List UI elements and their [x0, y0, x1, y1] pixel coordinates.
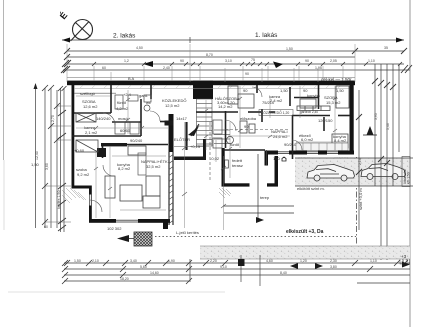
svg-text:1,10: 1,10: [368, 59, 375, 63]
svg-text:ELŐTÉR: ELŐTÉR: [174, 137, 190, 142]
svg-text:14,2 m2: 14,2 m2: [218, 104, 233, 109]
svg-text:6,0 m2: 6,0 m2: [301, 137, 314, 142]
svg-text:12,6 m2: 12,6 m2: [83, 104, 98, 109]
svg-text:1,10: 1,10: [370, 259, 377, 263]
svg-text:18,20: 18,20: [120, 277, 129, 281]
svg-text:140/240: 140/240: [96, 116, 111, 121]
svg-text:1,20: 1,20: [300, 259, 307, 263]
svg-text:35: 35: [384, 46, 388, 50]
svg-text:elkötött szint m.: elkötött szint m.: [297, 186, 325, 191]
svg-text:wc: wc: [146, 100, 151, 105]
svg-text:konyha: konyha: [307, 93, 321, 98]
svg-text:fürdő: fürdő: [230, 142, 240, 147]
svg-text:KÖZLEKEDŐ 1,20: KÖZLEKEDŐ 1,20: [261, 110, 289, 115]
svg-text:15,3 m2: 15,3 m2: [326, 100, 341, 105]
svg-text:B A: B A: [128, 76, 135, 81]
svg-text:L-jelű kerítés: L-jelű kerítés: [176, 230, 199, 235]
svg-text:terep: terep: [260, 195, 270, 200]
svg-text:1,90: 1,90: [168, 259, 175, 263]
svg-text:kerítés 1,50r: kerítés 1,50r: [57, 189, 61, 209]
svg-text:90/210: 90/210: [284, 142, 297, 147]
svg-text:2,1 m2: 2,1 m2: [85, 130, 98, 135]
svg-text:2,70: 2,70: [51, 115, 55, 122]
svg-text:90: 90: [245, 72, 249, 76]
svg-text:2,10: 2,10: [92, 259, 99, 263]
svg-text:gard.: gard.: [139, 93, 148, 98]
svg-text:120/150: 120/150: [318, 118, 333, 123]
svg-text:90: 90: [180, 59, 184, 63]
svg-text:-0,02: -0,02: [210, 156, 220, 161]
svg-text:2,10: 2,10: [358, 158, 362, 165]
svg-text:12,5 m2: 12,5 m2: [165, 103, 180, 108]
svg-text:fürdő: fürdő: [117, 100, 127, 105]
svg-text:2,40: 2,40: [163, 66, 170, 70]
svg-text:1,50: 1,50: [31, 162, 40, 167]
svg-text:1. lakás: 1. lakás: [255, 32, 278, 39]
svg-text:8,2 m2: 8,2 m2: [118, 166, 131, 171]
svg-text:12,40: 12,40: [35, 151, 39, 160]
svg-text:1,50: 1,50: [280, 88, 289, 93]
svg-text:2,05: 2,05: [330, 59, 337, 63]
svg-text:4,50: 4,50: [136, 46, 143, 50]
svg-text:75: 75: [251, 58, 255, 62]
svg-text:előszoba: előszoba: [240, 116, 257, 121]
svg-text:60: 60: [44, 225, 48, 229]
svg-text:+2,4: +2,4: [123, 92, 132, 97]
svg-text:4,2 m2: 4,2 m2: [116, 106, 129, 111]
svg-text:2. lakás: 2. lakás: [113, 33, 136, 40]
svg-text:9,2 m2: 9,2 m2: [77, 172, 90, 177]
svg-text:90: 90: [243, 88, 248, 93]
svg-text:90: 90: [305, 59, 309, 63]
svg-text:1,2: 1,2: [124, 59, 129, 63]
svg-text:1,50: 1,50: [336, 88, 345, 93]
svg-text:5,60: 5,60: [140, 265, 147, 269]
svg-text:+3: +3: [401, 254, 407, 259]
svg-text:2,20: 2,20: [210, 259, 217, 263]
svg-text:8,4 m2: 8,4 m2: [334, 138, 347, 143]
svg-text:1,50: 1,50: [74, 259, 81, 263]
svg-text:elkészült +3, Da: elkészült +3, Da: [286, 229, 324, 235]
svg-text:75/210: 75/210: [262, 100, 275, 105]
svg-text:60: 60: [102, 66, 106, 70]
svg-text:szélfogó: szélfogó: [80, 91, 96, 96]
svg-text:9,10: 9,10: [220, 265, 227, 269]
svg-text:1,95: 1,95: [315, 66, 322, 70]
svg-text:14x17: 14x17: [176, 116, 188, 121]
svg-text:terasz: terasz: [232, 163, 243, 168]
svg-text:90/240: 90/240: [130, 138, 143, 143]
svg-text:8,40: 8,40: [280, 271, 287, 275]
svg-text:3,10: 3,10: [225, 59, 232, 63]
svg-text:102 302: 102 302: [107, 226, 122, 231]
svg-text:14,60: 14,60: [150, 271, 159, 275]
svg-text:3,95: 3,95: [374, 113, 378, 120]
svg-text:60/60: 60/60: [120, 128, 131, 133]
svg-text:3,40: 3,40: [130, 259, 137, 263]
svg-text:24,6 m2: 24,6 m2: [273, 134, 288, 139]
svg-text:2,30: 2,30: [330, 259, 337, 263]
svg-text:32,5 m2: 32,5 m2: [146, 164, 161, 169]
svg-text:5,40: 5,40: [386, 123, 390, 130]
svg-text:4,60: 4,60: [266, 259, 273, 263]
svg-text:+0,15: +0,15: [190, 144, 201, 149]
svg-text:8,70: 8,70: [206, 53, 213, 57]
svg-text:3,60: 3,60: [45, 163, 49, 170]
svg-text:3,80: 3,80: [330, 265, 337, 269]
svg-text:1,50: 1,50: [286, 47, 293, 51]
svg-text:150: 150: [273, 156, 280, 161]
